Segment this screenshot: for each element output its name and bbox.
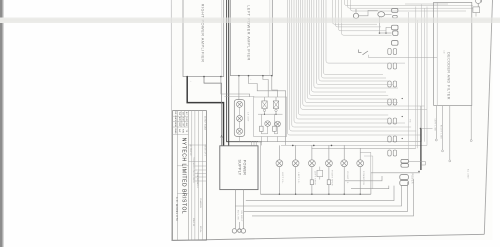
svg-text:RIGHT LS-: RIGHT LS- — [346, 172, 348, 185]
svg-text:1.83: 1.83 — [185, 117, 187, 121]
cell divider — [177, 165, 188, 167]
wire — [380, 32, 392, 34]
wire — [264, 97, 266, 101]
svg-text:MOD 4: MOD 4 — [196, 182, 198, 187]
svg-text:4.81: 4.81 — [178, 117, 180, 121]
wire — [287, 0, 420, 135]
svg-text:DECODER AND FILTER: DECODER AND FILTER — [447, 52, 451, 100]
wire — [246, 186, 394, 201]
svg-text:TOLERANCES UNLESS STATED: TOLERANCES UNLESS STATED — [192, 157, 195, 183]
wire — [176, 111, 178, 135]
wire — [244, 182, 408, 211]
wire — [420, 128, 432, 130]
wire — [202, 111, 204, 240]
resistor R4 — [327, 180, 330, 185]
wire — [260, 114, 262, 126]
component C2 — [392, 25, 398, 30]
svg-text:DRN: DRN — [174, 122, 176, 127]
wire — [277, 137, 279, 142]
svg-text:LS OUT: LS OUT — [246, 112, 248, 122]
terminal SW LIVE — [232, 229, 236, 233]
title block — [173, 111, 207, 241]
svg-text:LEFT LS-: LEFT LS- — [297, 172, 299, 183]
wire — [273, 114, 275, 126]
wire — [328, 145, 330, 159]
wire — [173, 121, 189, 123]
page interior tint — [172, 0, 493, 240]
wire — [184, 111, 186, 127]
wire — [323, 0, 383, 75]
wire — [194, 111, 196, 240]
svg-text:LEFT LINE: LEFT LINE — [433, 119, 435, 132]
wire — [195, 180, 207, 182]
resistor R2 — [273, 126, 277, 131]
mains connector P1 — [476, 0, 481, 4]
wire — [442, 106, 444, 150]
output terminal T1 — [237, 101, 243, 107]
svg-text:J.W: J.W — [182, 123, 184, 126]
wire — [188, 144, 206, 146]
block: LEFT POWER AMPLIFIER — [230, 0, 272, 76]
wire — [386, 28, 392, 34]
indicator lamp D5 (RIGHT LS-) — [341, 160, 348, 167]
wire — [253, 142, 255, 146]
wire — [261, 126, 267, 133]
wire — [281, 144, 427, 146]
wire — [449, 106, 451, 160]
transformer TR2 — [273, 101, 278, 109]
wire — [477, 4, 479, 7]
svg-text:SW: SW — [408, 119, 410, 123]
dashed group: output network — [254, 97, 287, 137]
transformer TR1 — [262, 101, 267, 109]
wire — [252, 179, 414, 216]
wire — [319, 177, 321, 180]
wire — [342, 0, 392, 35]
svg-text:6.82: 6.82 — [182, 117, 184, 121]
wire — [204, 77, 222, 146]
speaker terminal column block — [234, 100, 244, 137]
svg-text:SHEET 1 OF 1: SHEET 1 OF 1 — [204, 144, 206, 155]
wire riser — [424, 8, 426, 142]
wire — [249, 76, 286, 146]
svg-text:CHKD: CHKD — [174, 128, 176, 134]
svg-text:SW LIVE: SW LIVE — [237, 210, 239, 221]
wire — [319, 167, 321, 171]
wire — [187, 111, 189, 240]
wire — [420, 129, 422, 171]
wire — [195, 176, 207, 178]
junction dots on amplifier outputs — [186, 76, 188, 78]
wire — [275, 112, 277, 115]
wire — [314, 0, 398, 88]
wire — [191, 111, 193, 240]
wire — [275, 97, 277, 101]
wire — [359, 50, 362, 53]
wire — [305, 0, 398, 103]
wire — [319, 0, 388, 81]
svg-text:POWER: POWER — [411, 173, 414, 184]
wire — [292, 0, 411, 127]
wire — [316, 0, 393, 85]
wire — [311, 145, 313, 159]
socket pair J1 — [388, 49, 391, 55]
svg-text:ISS 1: ISS 1 — [174, 111, 176, 116]
wire — [261, 193, 371, 195]
socket pair J2 — [388, 63, 391, 69]
scanner edge dark strip at far left — [0, 0, 3, 247]
wire — [345, 0, 473, 6]
wire riser — [421, 5, 423, 142]
socket pair J6 — [388, 136, 391, 142]
wire — [228, 0, 230, 146]
wire — [385, 13, 392, 15]
indicator lamp D6 (POWER ON) — [357, 160, 364, 167]
sockets near power lead — [401, 159, 409, 163]
wire — [312, 141, 422, 143]
svg-text:DRG No: DRG No — [199, 226, 201, 232]
wire — [173, 134, 189, 136]
svg-text:SCALE 1:1: SCALE 1:1 — [192, 218, 195, 226]
svg-text:RIGHT POWER AMPLIFIER: RIGHT POWER AMPLIFIER — [201, 4, 206, 63]
indicator lamp D4 (RIGHT SPKR) — [326, 160, 333, 167]
wire riser — [426, 7, 428, 146]
wire — [173, 115, 189, 117]
wire — [197, 111, 199, 240]
svg-text:SW NEUT: SW NEUT — [240, 210, 242, 222]
wire — [258, 141, 312, 143]
wire — [343, 167, 345, 195]
component C4 — [392, 41, 398, 46]
page right border — [484, 0, 492, 234]
svg-text:POWER ON: POWER ON — [362, 171, 364, 185]
wire — [243, 190, 245, 229]
wire — [278, 167, 280, 195]
wire — [187, 77, 223, 146]
wire — [238, 222, 240, 229]
wire — [260, 137, 262, 146]
wire — [295, 167, 297, 195]
wire riser — [407, 12, 409, 160]
component RV1 — [392, 9, 398, 13]
indicator lamp D1 (LEFT LS+) — [276, 160, 283, 167]
fuse / small network between indicators — [317, 170, 323, 176]
wire — [345, 176, 382, 181]
wire — [309, 0, 388, 96]
wire — [360, 152, 371, 173]
wire — [235, 186, 401, 206]
resistor R1 — [260, 126, 264, 131]
svg-text:CD: CD — [443, 50, 445, 54]
wire — [475, 13, 477, 17]
wire — [351, 0, 467, 11]
svg-text:RIGHT LINE: RIGHT LINE — [440, 125, 442, 140]
wire — [470, 105, 472, 139]
wire — [294, 0, 405, 123]
wire — [238, 76, 240, 100]
wire — [355, 9, 357, 13]
page left paper edge — [170, 0, 172, 240]
wire — [195, 169, 207, 171]
component C3 — [393, 31, 398, 35]
wire — [321, 0, 386, 78]
wire — [267, 137, 269, 142]
resistor R3 — [310, 180, 313, 185]
wire — [274, 127, 277, 134]
wire — [364, 156, 373, 189]
wire — [363, 51, 369, 55]
indicator lamp D3 (LEFT SPKR) — [309, 160, 316, 167]
terminal earth — [238, 229, 241, 232]
svg-text:DO NOT SCALE: DO NOT SCALE — [203, 116, 206, 131]
svg-text:A.C. MODEL CTA: A.C. MODEL CTA — [175, 197, 179, 221]
horizontal scanner streak band — [0, 18, 500, 24]
svg-text:ALL DIMS MM: ALL DIMS MM — [189, 145, 192, 157]
wire — [262, 101, 267, 109]
wire — [278, 145, 280, 159]
wire — [343, 145, 345, 159]
scanner streak overlay — [0, 18, 500, 24]
wire — [339, 0, 387, 31]
wire — [312, 0, 386, 92]
wire — [264, 112, 266, 115]
socket pair J7 — [388, 150, 391, 156]
wire — [326, 0, 405, 63]
wire — [307, 0, 393, 99]
block: DECODER AND FILTER — [434, 2, 472, 105]
wire — [290, 0, 417, 131]
wire — [225, 95, 255, 97]
wire — [255, 142, 257, 146]
indicator lamp D2 (LEFT LS-) — [292, 160, 299, 167]
wire — [272, 76, 278, 97]
svg-text:LEFT LS+: LEFT LS+ — [281, 172, 283, 184]
wire — [328, 167, 330, 195]
wire — [195, 165, 207, 167]
wire — [176, 135, 178, 240]
wire — [371, 173, 420, 194]
page bottom border — [172, 234, 485, 240]
decoder inner edge — [436, 2, 438, 105]
wire — [221, 135, 223, 137]
wire — [359, 10, 378, 15]
wire — [234, 190, 236, 229]
wire — [251, 142, 253, 146]
relay coil K1 — [353, 13, 358, 18]
wire riser — [416, 20, 418, 148]
wire — [301, 0, 427, 109]
socket pair J4 — [388, 99, 391, 105]
wire — [269, 0, 271, 76]
wire riser — [415, 7, 417, 149]
output terminal T2 — [237, 115, 243, 121]
lamp LP2 — [275, 121, 281, 127]
wire — [258, 113, 283, 115]
component RV2 — [393, 15, 398, 18]
svg-text:NYTECH LIMITED BRISTOL: NYTECH LIMITED BRISTOL — [181, 138, 187, 214]
wire — [481, 0, 483, 2]
svg-text:SUPPLY: SUPPLY — [238, 159, 242, 175]
wire — [420, 106, 422, 129]
wire — [263, 76, 268, 97]
wire — [227, 0, 262, 142]
wire — [303, 0, 425, 106]
socket pair J5 — [388, 118, 391, 124]
wire — [359, 167, 361, 195]
terminal SW NEUTRAL — [241, 229, 245, 233]
wire — [173, 126, 189, 128]
wire — [298, 0, 388, 115]
wire — [221, 0, 223, 77]
wire — [195, 173, 207, 175]
block: POWER SUPPLY — [220, 146, 258, 190]
cell divider — [177, 192, 188, 194]
wire — [312, 147, 416, 149]
wire — [188, 161, 206, 163]
svg-text:CHASSIS: CHASSIS — [199, 198, 202, 208]
socket pair J3 — [388, 81, 391, 87]
output terminal T3 — [237, 128, 243, 134]
svg-text:G.W: G.W — [178, 122, 180, 126]
wire — [239, 136, 241, 141]
capacitor C1 — [378, 12, 385, 17]
wire — [379, 17, 381, 33]
wire — [333, 0, 378, 24]
wire — [435, 106, 437, 139]
wire — [405, 3, 448, 5]
wire — [348, 0, 473, 8]
wire — [295, 145, 297, 159]
svg-text:POWER: POWER — [243, 160, 247, 175]
wire — [239, 107, 241, 115]
wire — [351, 186, 389, 189]
wire — [239, 121, 241, 128]
wire from switch — [369, 55, 438, 58]
svg-text:DATE: DATE — [174, 116, 177, 122]
wire — [336, 0, 382, 27]
svg-text:LEFT POWER AMPLIFIER: LEFT POWER AMPLIFIER — [247, 5, 252, 61]
wire: PSU section left edge — [260, 142, 262, 195]
wire — [221, 77, 250, 97]
wire — [180, 111, 182, 127]
wire — [311, 167, 313, 195]
svg-text:AC 240V: AC 240V — [467, 169, 470, 179]
lamp LP1 — [265, 121, 271, 127]
block: RIGHT POWER AMPLIFIER — [183, 0, 224, 77]
wire — [409, 162, 426, 166]
wire — [273, 101, 278, 109]
wire — [296, 0, 388, 119]
wire — [359, 148, 361, 160]
